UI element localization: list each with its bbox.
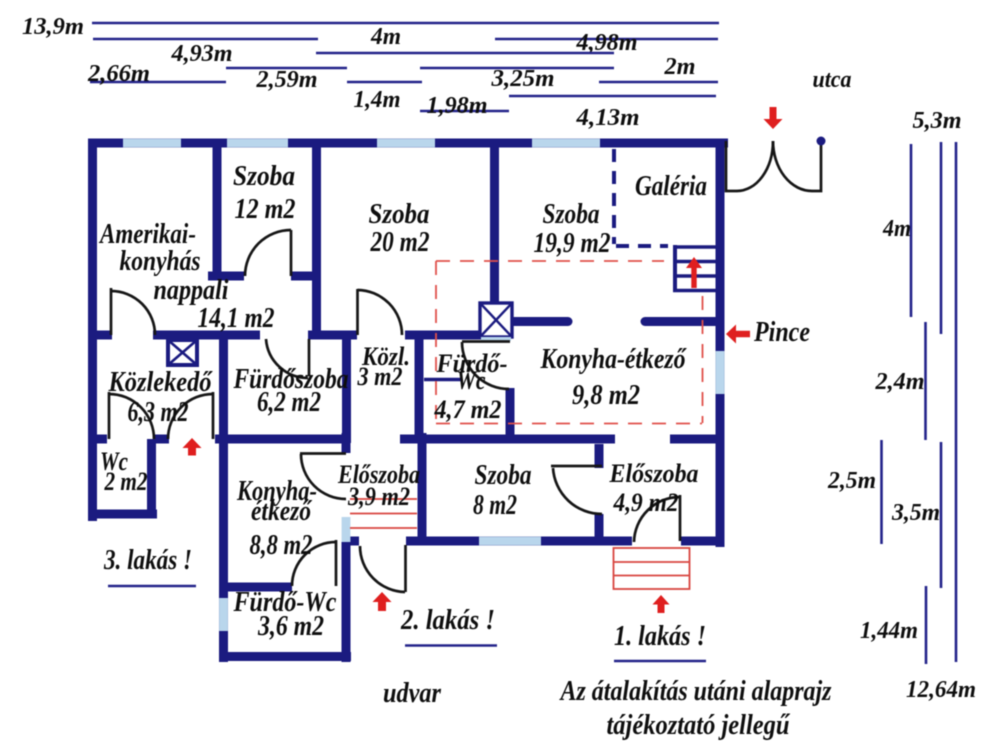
galeria dashed boundary vertical: [612, 149, 616, 244]
svg-text:3 m2: 3 m2: [357, 362, 403, 391]
dimension line 3,5m: [940, 442, 943, 588]
wall: Szoba 8 / Eloszoba 4,9 divider: [595, 444, 604, 541]
door arc: Eloszoba 3,9 lower: [360, 545, 406, 592]
dimension line 4m top: [316, 52, 614, 55]
svg-text:Az átalakítás utáni alaprajz: Az átalakítás utáni alaprajz: [559, 676, 832, 707]
svg-text:2,59m: 2,59m: [255, 67, 317, 93]
window W1 top wall: [123, 139, 181, 148]
label 1,4m: [354, 87, 401, 113]
svg-text:3,25m: 3,25m: [490, 66, 554, 92]
red stair lines eloszoba 3,9: [350, 499, 417, 528]
red arrow down utca entrance: [764, 107, 783, 129]
wall: top exterior: [88, 139, 728, 148]
red arrow up 1. lakas entrance: [653, 595, 670, 613]
svg-text:5,3m: 5,3m: [913, 108, 962, 134]
partition shelf in Furdo-Wc 4,7: [424, 378, 461, 381]
label Szoba 20 m2: [369, 199, 430, 258]
crossed box B2: [480, 303, 512, 341]
label Szoba 19,9 m2: [534, 199, 611, 259]
label 1,44m: [860, 618, 918, 644]
door arc: Szoba 8: [551, 466, 602, 514]
dimension line 5,3m: [940, 142, 943, 334]
door arc: Konyha 8,8 / Furdo-Wc 3,6: [292, 540, 336, 586]
wall: Eloszoba 3,9 / Szoba 8 divider: [418, 433, 427, 541]
window W6 bottom wall: [479, 537, 541, 546]
wall: Eloszoba 3,9 left: [342, 433, 351, 662]
svg-text:1,98m: 1,98m: [427, 93, 488, 119]
wall: Kozl / Furdo-Wc divider: [415, 335, 424, 443]
window W5 right wall: [716, 351, 725, 394]
door arc: Furdo-Wc 4,7: [462, 342, 510, 390]
svg-text:8 m2: 8 m2: [473, 490, 517, 521]
window W3 top wall: [377, 139, 435, 148]
door arc: Eloszoba 3,9 upper: [300, 454, 346, 500]
label Amerikai-konyhas nappali 14,1 m2: [98, 219, 274, 334]
window W2 top wall: [227, 139, 288, 148]
dimension line 2,4m: [924, 322, 927, 440]
dimension line 4,98m: [495, 38, 718, 41]
wall: Wc bottom: [88, 510, 157, 519]
label Eloszoba 4,9 m2: [609, 459, 699, 517]
dimension line 4,13m: [509, 95, 716, 98]
label Szoba 8 m2: [473, 460, 532, 521]
svg-text:Szoba: Szoba: [233, 161, 295, 192]
red arrow left pince: [726, 325, 750, 344]
wall: mid horizontal y335: [88, 331, 481, 340]
label Furdoszoba 6,2 m2: [233, 364, 349, 418]
svg-text:13,9m: 13,9m: [22, 14, 84, 40]
svg-text:Konyha-étkező: Konyha-étkező: [540, 344, 688, 375]
wall: Furdoszoba / Kozl divider: [342, 335, 351, 443]
label 5,3m: [913, 108, 962, 134]
wall: Wc right: [147, 439, 156, 518]
wall: nappali / Szoba 12 divider: [213, 139, 222, 280]
caption line 1: [559, 676, 832, 707]
svg-text:konyhás: konyhás: [120, 246, 201, 277]
svg-text:1. lakás !: 1. lakás !: [614, 621, 706, 652]
window W4 top wall: [532, 139, 600, 148]
label Eloszoba 3,9 m2: [337, 460, 420, 511]
label 4,13m: [575, 105, 639, 131]
window W8 eloszoba 3,9 left wall: [342, 517, 351, 542]
label Kozl. 3 m2: [357, 342, 410, 391]
dimension line 2m: [599, 81, 718, 84]
svg-text:6,3 m2: 6,3 m2: [128, 397, 189, 428]
dimension line 1,4m: [347, 81, 422, 84]
door arc: nappali bottom: [111, 288, 155, 335]
label 3. lakas: [103, 545, 196, 586]
wall: Szoba 12 / Szoba 20 divider: [312, 139, 321, 339]
wall: Furdo-Wc right below box: [506, 388, 515, 443]
wall: bottom row y541: [344, 537, 724, 546]
svg-text:1,4m: 1,4m: [354, 87, 401, 113]
label 4,93m: [170, 41, 232, 67]
svg-text:2 m2: 2 m2: [104, 467, 148, 496]
svg-text:Szoba: Szoba: [369, 199, 430, 230]
svg-text:2m: 2m: [663, 54, 695, 80]
svg-text:6,2 m2: 6,2 m2: [257, 387, 321, 418]
svg-text:Közlekedő: Közlekedő: [108, 367, 214, 398]
galeria dashed boundary horizontal: [616, 244, 668, 248]
wall: right exterior: [716, 139, 725, 547]
label 2,59m: [255, 67, 317, 93]
label Furdo-Wc 4,7 m2: [434, 349, 508, 424]
label 1,98m: [427, 93, 488, 119]
wall: Szoba 12 bottom: [208, 272, 321, 281]
label Pince: [753, 317, 810, 348]
staircase galeria: [673, 245, 716, 292]
red staircase 1. lakas: [614, 548, 690, 589]
svg-text:tájékoztató jellegű: tájékoztató jellegű: [607, 710, 791, 741]
label Galeria: [635, 171, 707, 202]
svg-text:udvar: udvar: [383, 678, 442, 709]
red arrow up 3. lakas entrance: [183, 438, 202, 456]
dimension line 4m right: [910, 144, 913, 317]
svg-text:4m: 4m: [882, 216, 911, 242]
svg-text:2,66m: 2,66m: [87, 61, 150, 87]
label Konyha-etkezo 9,8 m2: [540, 344, 688, 411]
window W7 konyha 8,8 left wall: [219, 598, 228, 631]
svg-text:8,8 m2: 8,8 m2: [250, 530, 313, 561]
dimension line 12,64m: [955, 142, 958, 662]
wall: horizontal y439: [88, 435, 724, 444]
svg-text:3,9 m2: 3,9 m2: [347, 482, 410, 511]
door arc: Eloszoba 4,9: [634, 495, 680, 542]
label Wc 2 m2: [100, 447, 148, 496]
svg-text:2,5m: 2,5m: [827, 468, 876, 494]
label 4m right: [882, 216, 911, 242]
wall: Konyha 8,8 / Furdo-Wc 3,6 divider: [219, 583, 292, 592]
label 2m: [663, 54, 695, 80]
label 3,5m: [891, 500, 940, 526]
dimension line 1,44m: [925, 586, 928, 664]
svg-text:12,64m: 12,64m: [906, 677, 976, 703]
svg-text:12 m2: 12 m2: [235, 194, 296, 225]
label 2,4m: [874, 369, 924, 395]
dimension line 3,25m: [420, 67, 614, 70]
svg-text:2. lakás !: 2. lakás !: [400, 605, 495, 636]
door arc: Szoba 20: [358, 289, 403, 335]
svg-text:14,1 m2: 14,1 m2: [198, 303, 275, 334]
svg-text:2,4m: 2,4m: [874, 369, 924, 395]
svg-text:étkező: étkező: [251, 496, 313, 527]
wall: Furdoszoba left / Konyha 8,8 left: [219, 331, 228, 662]
door arc: Kozlekedo left: [109, 392, 154, 439]
red dashed renovation outline: [436, 261, 703, 424]
label 2,66m: [87, 61, 150, 87]
label 13,9m: [22, 14, 84, 40]
dimension line 2,59m: [226, 67, 347, 70]
red arrow up 2. lakas entrance: [373, 592, 392, 611]
wall: left exterior: [88, 139, 97, 521]
svg-text:Wc: Wc: [457, 366, 486, 395]
wall: Szoba 20 / Szoba 19,9 divider: [490, 139, 499, 305]
svg-text:9,8 m2: 9,8 m2: [572, 380, 640, 411]
svg-text:4,7 m2: 4,7 m2: [434, 395, 502, 424]
label 2. lakas: [400, 605, 497, 646]
svg-text:3,6 m2: 3,6 m2: [257, 611, 324, 642]
caption line 2: [607, 710, 791, 741]
svg-text:Szoba: Szoba: [475, 460, 532, 491]
svg-text:nappali: nappali: [154, 275, 229, 306]
crossed box B1: [168, 340, 197, 365]
door arc: Kozlekedo right: [168, 392, 213, 439]
wall: konyha-etkezo 9,8 top: [514, 317, 716, 326]
svg-text:1,44m: 1,44m: [860, 618, 918, 644]
svg-text:4,93m: 4,93m: [170, 41, 232, 67]
label Furdo-Wc 3,6 m2: [233, 587, 337, 642]
svg-text:4,13m: 4,13m: [575, 105, 639, 131]
label 4,98m: [575, 30, 637, 56]
label 4m top: [370, 24, 401, 50]
label 1. lakas: [614, 621, 706, 661]
svg-text:3,5m: 3,5m: [891, 500, 940, 526]
label udvar: [383, 678, 442, 709]
svg-text:20 m2: 20 m2: [370, 227, 430, 258]
svg-text:4m: 4m: [370, 24, 401, 50]
dimension line 1,98m: [420, 110, 509, 113]
label 2,5m: [827, 468, 876, 494]
label 3,25m: [490, 66, 554, 92]
svg-text:3. lakás !: 3. lakás !: [103, 545, 192, 576]
label utca: [813, 67, 852, 93]
door arc: Furdoszoba: [266, 339, 309, 378]
svg-text:Pince: Pince: [753, 317, 810, 348]
label 12,64m: [906, 677, 976, 703]
wall: Furdo-Wc 3,6 bottom: [219, 652, 351, 661]
svg-text:Szoba: Szoba: [543, 199, 600, 230]
label Szoba 12 m2: [233, 161, 296, 225]
svg-text:19,9 m2: 19,9 m2: [534, 228, 611, 259]
svg-text:utca: utca: [813, 67, 852, 93]
street gate double door: [726, 137, 826, 192]
dimension line 4,93m: [93, 38, 318, 41]
dimension line 2,66m: [90, 81, 226, 84]
svg-text:Előszoba: Előszoba: [609, 459, 699, 488]
svg-text:Galéria: Galéria: [635, 171, 707, 202]
label Konyha-etkezo 8,8 m2: [236, 476, 317, 561]
dimension line 13,9m: [92, 22, 719, 25]
door arc: Szoba 12: [245, 230, 291, 276]
dimension line 2,5m: [880, 440, 883, 544]
label Kozlekedo 6,3 m2: [108, 367, 214, 428]
svg-text:4,9 m2: 4,9 m2: [613, 488, 679, 517]
red arrow up galeria stairs: [686, 257, 702, 288]
